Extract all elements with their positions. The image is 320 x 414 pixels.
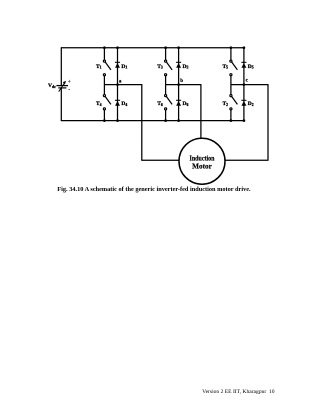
svg-text:c: c xyxy=(246,78,249,83)
switch T5 xyxy=(223,48,238,85)
junction dots top rail xyxy=(103,46,245,49)
svg-text:Induction: Induction xyxy=(190,155,215,163)
node b wire xyxy=(166,84,201,138)
source Vdc xyxy=(48,80,71,93)
diode D3 xyxy=(176,48,188,121)
svg-text:+: + xyxy=(68,80,71,85)
svg-text:-: - xyxy=(68,87,70,93)
svg-text:T6: T6 xyxy=(157,101,163,107)
svg-text:T1: T1 xyxy=(96,64,102,70)
svg-text:T5: T5 xyxy=(223,64,229,70)
svg-text:Vdc: Vdc xyxy=(48,83,56,89)
wire bottom DC rail xyxy=(61,120,244,122)
svg-text:T2: T2 xyxy=(223,101,229,107)
svg-text:Version 2 EE IIT, Kharagpur 1: Version 2 EE IIT, Kharagpur 10 xyxy=(202,389,275,395)
diode D4 xyxy=(115,100,127,107)
wire left DC link lower xyxy=(60,88,62,121)
node a wire xyxy=(104,84,179,160)
svg-text:T4: T4 xyxy=(96,101,102,107)
diode D2 xyxy=(241,100,253,107)
svg-text:D5: D5 xyxy=(248,64,254,70)
svg-text:T3: T3 xyxy=(157,64,163,70)
switch T1 xyxy=(96,48,111,85)
svg-text:D6: D6 xyxy=(183,101,189,107)
switch T4 xyxy=(96,85,111,121)
svg-text:D4: D4 xyxy=(121,101,127,107)
svg-text:Fig. 34.10 A schematic of the: Fig. 34.10 A schematic of the generic in… xyxy=(57,186,251,193)
junction dots phase nodes xyxy=(116,83,245,86)
diode D6 xyxy=(176,100,188,107)
svg-text:D1: D1 xyxy=(121,64,127,70)
svg-text:b: b xyxy=(180,79,183,84)
node c wire xyxy=(225,84,269,160)
induction motor M xyxy=(179,138,225,184)
diode D5 xyxy=(241,48,253,121)
wire left DC link upper xyxy=(60,47,62,85)
switch T2 xyxy=(223,85,238,121)
svg-text:D2: D2 xyxy=(248,101,254,107)
junction dots bottom rail xyxy=(103,119,245,122)
svg-text:a: a xyxy=(119,80,122,85)
switch T3 xyxy=(157,48,172,85)
svg-text:D3: D3 xyxy=(183,64,189,70)
svg-text:Motor: Motor xyxy=(192,162,212,170)
wire top DC rail xyxy=(61,47,244,49)
diode D1 xyxy=(115,48,127,121)
switch T6 xyxy=(157,85,172,121)
